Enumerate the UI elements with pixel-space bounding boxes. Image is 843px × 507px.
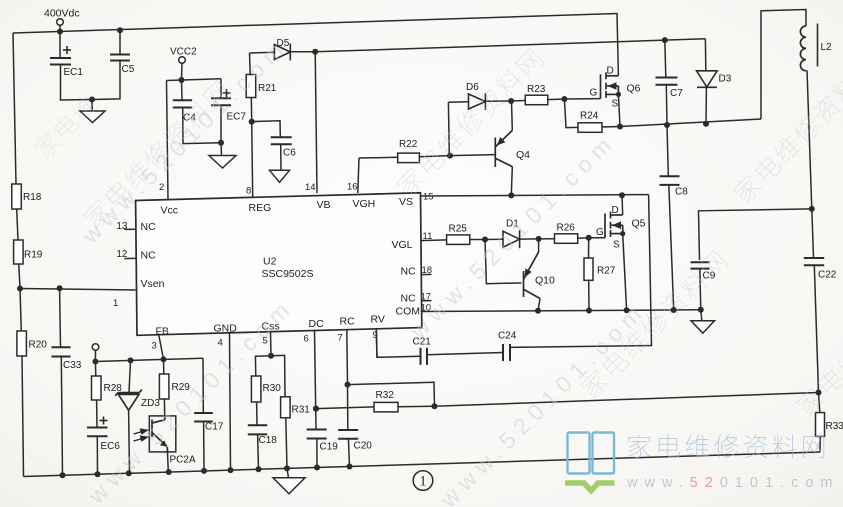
wire D3 bottom lead: [705, 87, 707, 124]
capacitor C4: [173, 100, 192, 107]
node Q5 gate node: [586, 235, 592, 241]
node VB node: [312, 49, 318, 55]
diode D6: [469, 93, 486, 110]
ground for C6: [270, 170, 290, 182]
node C19 ground: [314, 465, 320, 471]
wire R25 right lead: [470, 239, 485, 241]
resistor R20: [17, 331, 27, 356]
wire C22 top lead: [812, 209, 814, 257]
resistor R33: [816, 413, 825, 437]
wire D1 cathode lead: [520, 238, 539, 240]
svg-text:C6: C6: [283, 148, 296, 159]
resistor R21: [246, 75, 256, 98]
polarity + of EC7: [223, 89, 231, 97]
pin 18 stub: [421, 273, 432, 275]
svg-text:400Vdc: 400Vdc: [44, 8, 80, 20]
svg-text:VGL: VGL: [392, 239, 413, 251]
pin 12 stub: [124, 257, 135, 259]
wire ZD3 top lead: [129, 360, 131, 392]
svg-text:R32: R32: [376, 390, 395, 401]
capacitor C19: [307, 430, 327, 439]
node R29 tap: [161, 356, 167, 362]
node Q4 base node: [447, 153, 453, 159]
ground for EC1/C5: [80, 111, 105, 123]
svg-text:R19: R19: [24, 250, 43, 261]
wire Q6 gate lead: [564, 98, 600, 100]
capacitor C8: [660, 176, 680, 185]
node C18 ground: [256, 466, 262, 472]
wire R30-C18: [256, 402, 258, 425]
logo book icon green base: [565, 483, 615, 491]
wire FB line: [95, 358, 203, 361]
wire D5 anode elbow: [249, 53, 252, 75]
wire R26 right lead: [578, 237, 589, 239]
svg-text:NC: NC: [401, 293, 417, 305]
svg-text:NC: NC: [141, 221, 157, 233]
svg-text:Vcc: Vcc: [161, 205, 179, 217]
wire main ground stem: [287, 468, 289, 477]
wire C24-C21 link: [427, 353, 503, 355]
wire C9 bottom lead: [700, 269, 701, 310]
svg-text:R33: R33: [826, 421, 843, 432]
wire EC7 top: [220, 79, 222, 98]
svg-text:ZD3: ZD3: [141, 398, 160, 409]
wire C7 top lead: [665, 40, 666, 77]
svg-text:RV: RV: [371, 314, 385, 326]
node RC node: [345, 382, 351, 388]
svg-text:VCC2: VCC2: [170, 47, 197, 58]
wire pin14 VB drop: [315, 52, 317, 193]
wire PC2A emitter lead: [167, 452, 170, 472]
wire bottom ground bus: [24, 452, 821, 477]
op-amp U2 (IC SSC9502S body): [136, 193, 422, 335]
wire 400Vdc stem: [59, 25, 61, 31]
svg-text:NC: NC: [141, 250, 157, 262]
node PC2A ground: [166, 469, 172, 475]
capacitor C17: [194, 413, 213, 422]
node VCC2 node: [179, 77, 185, 83]
capacitor C6: [271, 137, 292, 144]
wire D6 anode elbow: [447, 102, 450, 155]
svg-text:G: G: [590, 88, 598, 99]
wire Css-R30 elbow: [255, 356, 271, 376]
wire Q5 source drop: [623, 234, 627, 311]
wire R29 top lead: [163, 359, 165, 374]
transistor Q5 (MOSFET): [605, 212, 623, 238]
wire R28-EC6: [96, 400, 98, 427]
wire Q10 collector riser: [538, 239, 540, 252]
resistor R29: [159, 374, 169, 399]
svg-text:R20: R20: [29, 340, 48, 351]
logo book icon left page: [568, 433, 590, 474]
svg-text:15: 15: [423, 192, 434, 203]
wire R32 left lead: [316, 407, 374, 409]
node Q5 drain tap: [619, 192, 625, 198]
wire EC6 bottom lead: [96, 436, 98, 474]
node L2 output node: [809, 206, 815, 212]
inductor L2: [800, 26, 806, 71]
wire C18 bottom lead: [257, 434, 260, 469]
wire D6 cathode lead: [485, 100, 511, 102]
node DC node: [313, 406, 319, 412]
wire switch node rail: [620, 119, 761, 127]
svg-text:www.520101.com: www.520101.com: [626, 475, 839, 491]
svg-text:NC: NC: [401, 266, 417, 278]
pin 13 stub: [124, 228, 135, 230]
svg-text:FB: FB: [156, 326, 169, 338]
resistor R30: [251, 376, 261, 402]
wire C9 top elbow: [699, 209, 812, 260]
capacitor C33: [52, 347, 71, 356]
wire R28 top lead: [94, 362, 96, 377]
capacitor C21: [421, 348, 428, 365]
svg-text:VGH: VGH: [353, 198, 376, 210]
node C20 ground: [347, 464, 353, 470]
resistor R18: [12, 184, 21, 209]
svg-text:PC2A: PC2A: [170, 455, 196, 466]
svg-text:Q6: Q6: [627, 83, 641, 95]
svg-text:3: 3: [152, 341, 157, 352]
node R32 left node: [313, 406, 319, 412]
wire REG-C6 link: [252, 121, 281, 137]
wire C33 top lead: [59, 288, 62, 347]
svg-text:R24: R24: [580, 111, 599, 122]
svg-text:R25: R25: [449, 224, 468, 235]
capacitor C18: [248, 425, 267, 434]
node EC7/C4 ground node: [218, 140, 224, 146]
node D1/R26/Q10 node: [536, 236, 542, 242]
wire 400V top bus: [13, 14, 618, 76]
wire Q4 base lead: [450, 155, 495, 156]
capacitor C24: [503, 344, 510, 361]
wire R24 drop: [564, 99, 578, 128]
capacitor EC7 (electrolytic): [211, 98, 231, 105]
terminal VCC2 input: [179, 57, 186, 64]
svg-text:R21: R21: [258, 83, 277, 94]
svg-text:C18: C18: [259, 435, 278, 446]
wire Css-R31 elbow: [271, 355, 285, 396]
wire switch node riser to L2: [761, 10, 806, 120]
wire R31 bottom lead: [286, 418, 287, 469]
wire R32 right lead: [398, 405, 435, 407]
wire left rail upper: [13, 33, 16, 184]
node Q5 source tap: [624, 307, 630, 313]
polarity + of EC1: [63, 46, 71, 54]
resistor R26: [555, 234, 578, 244]
svg-text:C24: C24: [498, 331, 517, 342]
svg-text:U2: U2: [263, 256, 277, 268]
capacitor EC6 (electrolytic): [87, 428, 108, 437]
ground main ground: [273, 478, 305, 494]
wire pin2 Vcc drop: [167, 81, 169, 200]
node C33 tap: [57, 285, 63, 291]
svg-text:VS: VS: [399, 196, 413, 208]
svg-text:RC: RC: [340, 316, 356, 328]
svg-text:8: 8: [246, 186, 251, 197]
node C8 bottom tap: [671, 307, 677, 313]
svg-text:S: S: [613, 240, 620, 251]
node R31 ground: [284, 465, 290, 471]
resistor R23: [525, 95, 548, 105]
wire R19-Vsen node: [19, 264, 20, 289]
node GND pin ground: [228, 467, 234, 473]
wire R23 right lead: [548, 98, 565, 101]
wire ground stem 2: [220, 143, 223, 156]
node source tie of Q6: [616, 92, 621, 97]
wire R27 top lead: [588, 238, 590, 258]
resistor R31: [281, 397, 291, 418]
wire VGL lead: [421, 239, 447, 242]
wire C5 bottom: [92, 61, 120, 100]
svg-text:C7: C7: [670, 88, 683, 99]
wire D5 cathode lead: [290, 51, 315, 53]
wire D5 anode lead: [250, 51, 275, 54]
svg-text:SSC9502S: SSC9502S: [262, 268, 314, 280]
diode D1: [503, 230, 520, 248]
resistor R27: [584, 258, 593, 280]
svg-text:R30: R30: [263, 383, 282, 394]
wire COM ground stem: [701, 310, 702, 321]
diode D5: [274, 44, 290, 61]
wire C8 bottom lead: [669, 185, 674, 310]
svg-text:14: 14: [305, 182, 316, 193]
svg-text:4: 4: [218, 338, 223, 349]
wire R21-REG node: [250, 98, 252, 122]
svg-text:C33: C33: [63, 360, 82, 371]
svg-text:D3: D3: [719, 74, 732, 85]
svg-text:Q10: Q10: [535, 275, 555, 287]
capacitor EC1 (electrolytic): [50, 58, 71, 65]
wire Vsen node-R20: [20, 289, 21, 332]
wire R26 left lead: [539, 238, 555, 240]
wire R20-bottom bus: [22, 356, 24, 477]
polarity + of EC6: [100, 417, 108, 425]
svg-text:7: 7: [338, 333, 343, 344]
node C9/COM ground node: [698, 307, 704, 313]
wire pin6 DC drop: [315, 331, 317, 430]
wire pin3 FB drop: [159, 334, 164, 360]
wire R32 line to R33: [435, 393, 819, 407]
wire C22 bottom lead: [814, 265, 818, 392]
node switch node at Q6 source: [617, 124, 623, 130]
wire COM line: [422, 310, 701, 312]
logo book icon right page: [593, 433, 615, 474]
wire Q10 emitter drop: [538, 299, 540, 311]
svg-text:1: 1: [419, 474, 426, 490]
svg-text:R26: R26: [557, 223, 576, 234]
node EC1/C5 ground: [89, 97, 95, 103]
svg-text:L2: L2: [821, 42, 833, 53]
resistor R19: [14, 240, 24, 264]
wire C7 bottom lead: [665, 85, 668, 125]
wire L2 bottom lead: [807, 70, 812, 209]
wire ground stem 1: [91, 100, 93, 112]
wire Q6 source drop: [618, 94, 620, 126]
wire pin9 RV drop: [375, 329, 378, 357]
wire R33 bottom lead: [819, 436, 821, 452]
core bar of L2: [817, 24, 819, 67]
svg-text:C5: C5: [122, 64, 135, 75]
wire R22 left lead: [359, 156, 398, 159]
wire RC elbow: [348, 382, 435, 406]
wire Q5 gate lead: [589, 237, 605, 239]
node R27 bottom tap: [586, 308, 592, 314]
node R19/R20 tap: [17, 286, 23, 292]
svg-text:C22: C22: [818, 270, 837, 281]
wire Q10 base path: [485, 240, 522, 284]
node ZD3 ground: [126, 470, 132, 476]
node Q6 gate node: [561, 96, 567, 102]
ground COM ground: [691, 321, 715, 334]
svg-text:VB: VB: [317, 199, 331, 211]
svg-text:6: 6: [304, 334, 309, 345]
svg-text:R27: R27: [597, 266, 616, 277]
svg-text:R23: R23: [527, 84, 546, 95]
svg-text:G: G: [596, 227, 604, 238]
node EC6 ground: [95, 471, 101, 477]
svg-text:16: 16: [347, 182, 358, 193]
ground for C4/EC7: [209, 156, 236, 169]
svg-text:Q5: Q5: [632, 218, 646, 230]
svg-text:Q4: Q4: [516, 149, 530, 161]
transistor Q10: [524, 252, 541, 299]
svg-text:D: D: [607, 65, 614, 76]
node C17 ground: [201, 468, 207, 474]
wire C5 top: [119, 30, 121, 54]
svg-text:1: 1: [113, 298, 118, 309]
diode D3 (zener): [697, 71, 718, 88]
transistor Q4: [495, 130, 512, 167]
wire VCC2 rail: [167, 79, 222, 81]
wire Q4 emitter drop: [511, 167, 512, 196]
opto-coupler PC2A light arrows: [134, 429, 148, 441]
node D1 anode node: [482, 237, 488, 243]
svg-text:Vsen: Vsen: [141, 278, 165, 290]
wire R33 top lead: [819, 393, 820, 413]
terminal 400Vdc input: [57, 19, 64, 26]
node FB left node: [92, 359, 98, 365]
svg-text:DC: DC: [309, 318, 325, 330]
svg-text:REG: REG: [249, 202, 272, 214]
wire VS-C24 elbow: [510, 195, 652, 348]
wire C20 bottom lead: [348, 439, 349, 467]
node C22/R32/R33 node: [816, 390, 822, 396]
capacitor C20: [338, 430, 358, 439]
node C33 ground: [60, 472, 66, 478]
wire C6 bottom: [280, 144, 282, 170]
wire C33 bottom lead: [61, 357, 62, 476]
node Q4 emitter tap: [508, 192, 514, 198]
svg-text:C17: C17: [205, 422, 224, 433]
capacitor C9: [691, 262, 710, 268]
wire EC1 bottom: [61, 65, 93, 101]
capacitor C22: [804, 258, 824, 265]
marker circled-1: [413, 471, 433, 491]
wire R29-PC2A: [163, 399, 165, 416]
resistor R25: [447, 235, 470, 245]
wire pin7 RC drop: [346, 330, 349, 385]
svg-text:C19: C19: [320, 442, 339, 453]
svg-text:D: D: [612, 205, 619, 216]
wire Q4 collector riser: [511, 101, 514, 130]
resistor R32: [374, 402, 398, 412]
terminal FB input: [92, 344, 99, 351]
svg-text:C9: C9: [703, 271, 716, 282]
wire C8 top lead: [667, 125, 668, 176]
svg-text:S: S: [612, 99, 619, 110]
wire VB rail to C7/D3: [315, 39, 705, 52]
svg-text:GND: GND: [214, 323, 238, 335]
node Q6 gate drive node: [508, 98, 514, 104]
wire VCC2 stem: [181, 63, 184, 80]
wire C4 bottom: [183, 108, 221, 144]
opto-coupler PC2A transistor: [152, 416, 168, 452]
svg-text:R31: R31: [292, 405, 311, 416]
resistor R24: [578, 123, 602, 133]
wire C19 bottom lead: [316, 439, 318, 468]
wire C17 top lead: [202, 358, 204, 412]
wire C21-pin9 elbow: [376, 329, 420, 357]
node C7 top tap: [662, 37, 668, 43]
wire VS line: [421, 195, 649, 196]
svg-text:C20: C20: [354, 441, 373, 452]
node Q10 emitter tap: [535, 308, 541, 314]
wire pin8 REG drop: [252, 122, 253, 197]
wire EC1 top: [59, 32, 61, 58]
wire D6 anode lead: [448, 101, 468, 103]
node REG node: [249, 119, 255, 125]
wire Q5 drain riser: [621, 195, 624, 215]
node Css node: [268, 353, 274, 359]
svg-text:12: 12: [116, 249, 128, 260]
wire R23 left lead: [511, 100, 525, 103]
wire C4 top: [181, 80, 184, 100]
wire pin16 VGH riser: [358, 158, 359, 193]
wire R18-R19: [17, 209, 18, 240]
wire R22 right lead: [419, 156, 450, 157]
svg-text:EC6: EC6: [101, 441, 121, 452]
wire D1 anode lead: [485, 238, 503, 240]
wire EC7 bottom: [220, 105, 222, 143]
capacitor C7: [656, 78, 678, 85]
pin 17 stub: [421, 300, 432, 302]
wire FB terminal stem: [94, 350, 96, 361]
wire ZD3 bottom lead: [128, 410, 131, 473]
svg-text:EC1: EC1: [64, 67, 84, 78]
svg-text:C8: C8: [675, 187, 688, 198]
svg-text:R18: R18: [23, 192, 42, 203]
logo text jiadian weixiu ziliao wang: [628, 434, 824, 458]
node C5 tap: [117, 27, 123, 33]
wire C17 bottom lead: [203, 422, 205, 472]
wire RC-C20: [347, 385, 349, 430]
node 400Vdc tap: [57, 29, 63, 35]
svg-text:D6: D6: [466, 82, 479, 93]
capacitor C5: [110, 55, 130, 61]
node source tie of Q5: [620, 231, 625, 236]
wire R24 right lead: [602, 126, 620, 129]
node C7 bottom tap: [664, 122, 670, 128]
node ZD3 tap: [128, 357, 134, 363]
node R32 right node: [432, 403, 438, 409]
resistor R22: [398, 153, 420, 163]
diode ZD3 (zener): [115, 390, 142, 411]
opto-coupler PC2A box: [149, 416, 176, 452]
svg-text:R22: R22: [399, 139, 418, 150]
node D3 bottom tap: [703, 121, 709, 127]
wire pin5 Css drop: [270, 332, 273, 356]
wire Vsen line: [20, 289, 136, 291]
